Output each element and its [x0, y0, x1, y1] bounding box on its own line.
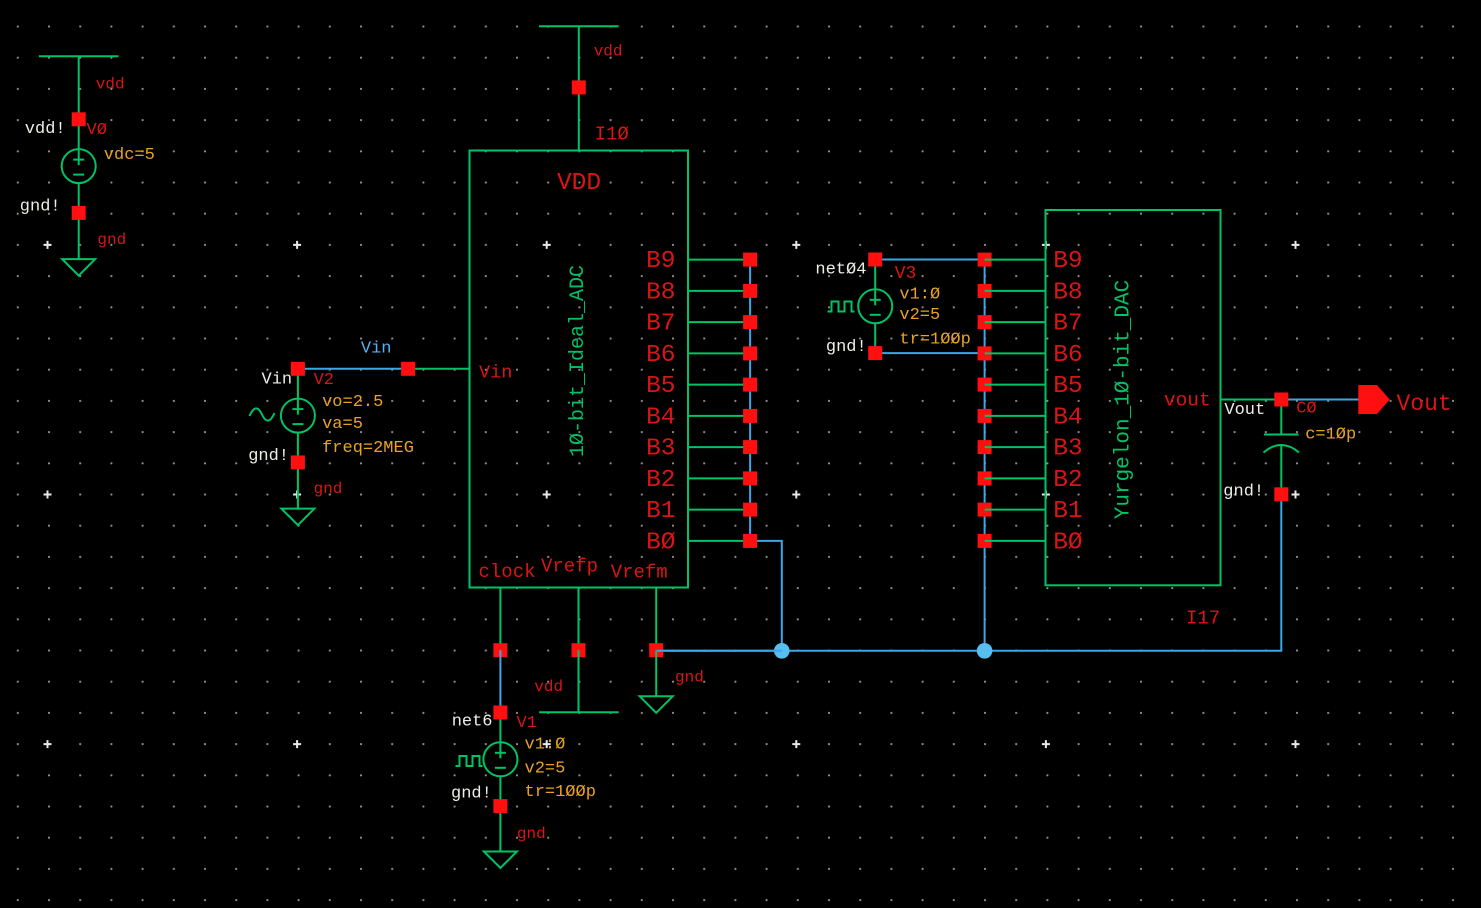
op block U I10 10-bit_Ideal_ADC box: [470, 151, 689, 588]
sine glyph of V2: [250, 408, 275, 420]
pin label Vin: [479, 363, 512, 384]
svg-text:VDD: VDD: [557, 170, 601, 197]
instance label V0: [87, 121, 107, 140]
svg-text:B2: B2: [646, 467, 675, 494]
DAC B7 pin stub: [985, 321, 1046, 323]
value label vdc=5: [104, 146, 155, 165]
svg-text:V1: V1: [517, 714, 537, 733]
pulse glyph of V1: [456, 756, 483, 766]
wire V1 to ground: [499, 806, 501, 851]
pin square DAC B4: [978, 409, 992, 423]
svg-text:freq=2MEG: freq=2MEG: [322, 439, 414, 458]
svg-text:vdd: vdd: [96, 76, 125, 94]
svg-text:B1: B1: [1053, 498, 1082, 525]
svg-text:tr=1ØØp: tr=1ØØp: [899, 331, 970, 350]
ADC pin label B9: [646, 248, 675, 275]
svg-text:Vin: Vin: [361, 340, 392, 359]
ground symbol (V1): [484, 852, 517, 869]
svg-text:B8: B8: [646, 279, 675, 306]
DAC B3 pin stub: [985, 446, 1046, 448]
vdd symbol (V0 top rail): [39, 55, 119, 57]
DAC pin label B5: [1053, 373, 1082, 400]
ADC B8 pin stub: [688, 290, 750, 292]
svg-text:vdd: vdd: [534, 678, 563, 696]
value freq=2MEG: [322, 439, 414, 458]
DAC B5 pin stub: [985, 384, 1046, 386]
pin square clock: [493, 643, 507, 657]
svg-text:tr=1ØØp: tr=1ØØp: [525, 783, 596, 802]
svg-text:V2: V2: [314, 371, 334, 390]
ADC B6 pin stub: [688, 352, 750, 354]
svg-text:Vrefm: Vrefm: [611, 562, 668, 584]
value c=10p: [1305, 426, 1356, 445]
pin square ADC B3: [743, 440, 757, 454]
svg-text:vout: vout: [1164, 389, 1211, 411]
DAC pin label B9: [1053, 248, 1082, 275]
pin square gnd! of V2: [291, 455, 305, 469]
pin square VDD of I10: [572, 80, 586, 94]
wire vdd bar to ADC VDD pin: [578, 26, 580, 150]
svg-text:gnd!: gnd!: [451, 785, 492, 804]
pin square gnd! of V0: [72, 206, 86, 220]
svg-text:B1: B1: [646, 498, 675, 525]
ADC B0 pin stub: [688, 540, 750, 542]
label gnd! (V3): [826, 338, 867, 357]
wire left bus column: [749, 260, 751, 541]
svg-text:B8: B8: [1053, 279, 1082, 306]
DAC pin label B7: [1053, 311, 1082, 338]
vdd symbol (Vrefp): [539, 711, 619, 713]
instance label I10: [595, 124, 629, 146]
pin square ADC B4: [743, 409, 757, 423]
net label vdd (I10): [594, 43, 623, 61]
svg-text:gnd!: gnd!: [826, 338, 867, 357]
pin square ADC B2: [743, 471, 757, 485]
svg-text:gnd: gnd: [97, 231, 126, 249]
net label vdd (Vrefp): [534, 678, 563, 696]
ground symbol (V0): [62, 259, 95, 276]
svg-text:I1Ø: I1Ø: [595, 124, 629, 146]
pin square net04 of V3: [868, 253, 882, 267]
label net04: [815, 261, 866, 280]
ADC B7 pin stub: [688, 321, 750, 323]
ADC Vin pin stub: [408, 368, 469, 370]
svg-text:va=5: va=5: [322, 415, 363, 434]
ADC pin label B7: [646, 311, 675, 338]
DAC B9 pin stub: [985, 259, 1046, 261]
pin label vout: [1164, 389, 1211, 411]
ADC clock pin stub: [499, 588, 501, 651]
svg-text:CØ: CØ: [1296, 400, 1316, 419]
label vdd!: [25, 120, 66, 139]
svg-text:gnd: gnd: [314, 480, 343, 498]
junction dot left: [774, 643, 790, 659]
svg-text:gnd!: gnd!: [20, 198, 61, 217]
pin square vdd! of V0: [72, 112, 86, 126]
DAC pin label B2: [1053, 467, 1082, 494]
ADC B5 pin stub: [688, 384, 750, 386]
svg-text:v1:Ø: v1:Ø: [899, 286, 940, 305]
pin square DAC B9: [978, 253, 992, 267]
svg-text:vdc=5: vdc=5: [104, 146, 155, 165]
svg-text:BØ: BØ: [646, 529, 675, 556]
net label Vin (blue): [361, 340, 392, 359]
DAC B1 pin stub: [985, 509, 1046, 511]
ADC pin label B5: [646, 373, 675, 400]
wire Vrefm to bus (blue): [656, 650, 782, 652]
ADC Vrefp pin stub: [578, 588, 580, 651]
svg-text:B6: B6: [1053, 342, 1082, 369]
svg-text:gnd: gnd: [517, 825, 546, 843]
pin square ADC B9: [743, 253, 757, 267]
ADC pin label B3: [646, 436, 675, 463]
wire clock to net6 (blue): [499, 650, 501, 712]
label gnd! (V2): [248, 447, 289, 466]
value v1:0 (V3): [899, 286, 940, 305]
pin square DAC B8: [978, 284, 992, 298]
svg-text:vdd!: vdd!: [25, 120, 66, 139]
pin square ADC B7: [743, 315, 757, 329]
ADC B2 pin stub: [688, 477, 750, 479]
pin square vout/C0 top: [1274, 393, 1288, 407]
pin square gnd! of C0: [1274, 487, 1288, 501]
output pin arrow Vout: [1358, 385, 1389, 414]
svg-text:vo=2.5: vo=2.5: [322, 393, 383, 412]
svg-text:VØ: VØ: [87, 121, 107, 140]
ADC B3 pin stub: [688, 446, 750, 448]
label gnd! (V1): [451, 785, 492, 804]
svg-text:clock: clock: [479, 561, 536, 583]
pin label Vrefm: [611, 562, 668, 584]
svg-text:V3: V3: [895, 264, 917, 284]
svg-text:1Ø-bit_Ideal_ADC: 1Ø-bit_Ideal_ADC: [567, 265, 590, 457]
value va=5: [322, 415, 363, 434]
value vo=2.5: [322, 393, 383, 412]
svg-text:v2=5: v2=5: [899, 306, 940, 325]
pin square gnd! of V1: [493, 799, 507, 813]
pin square ADC B8: [743, 284, 757, 298]
pin label Vrefp: [541, 556, 598, 578]
wire Vrefm to ground: [655, 650, 657, 696]
svg-text:B7: B7: [646, 311, 675, 338]
ADC pin label B0: [646, 529, 675, 556]
net label gnd (Vrefm): [675, 669, 704, 687]
svg-text:v1:Ø: v1:Ø: [525, 736, 566, 755]
instance label V3: [895, 264, 917, 284]
svg-text:B5: B5: [646, 373, 675, 400]
instance label I17: [1186, 608, 1220, 630]
wire V3 gnd to column: [875, 352, 984, 354]
wire V0 to ground: [78, 213, 80, 259]
svg-text:Vout: Vout: [1397, 391, 1452, 417]
wire Vrefp to vdd bar: [578, 650, 580, 712]
DAC B8 pin stub: [985, 290, 1046, 292]
ADC pin label B1: [646, 498, 675, 525]
junction dot right: [977, 643, 993, 659]
wire net04 to DAC B9: [875, 259, 984, 261]
DAC pin label B6: [1053, 342, 1082, 369]
ground symbol (V2): [281, 509, 314, 525]
DAC B4 pin stub: [985, 415, 1046, 417]
svg-text:Vin: Vin: [262, 371, 293, 390]
svg-text:B4: B4: [646, 404, 675, 431]
voltage source V1 pulse: [483, 713, 517, 807]
value tr=100p (V3): [899, 331, 970, 350]
svg-text:gnd!: gnd!: [1223, 483, 1264, 502]
value tr=100p (V1): [525, 783, 596, 802]
svg-text:gnd: gnd: [675, 669, 704, 687]
pin square ADC B0: [743, 534, 757, 548]
ADC B1 pin stub: [688, 509, 750, 511]
svg-text:Vrefp: Vrefp: [541, 556, 598, 578]
DAC pin label B3: [1053, 436, 1082, 463]
wire vout to pin arrow: [1281, 399, 1358, 401]
svg-text:B5: B5: [1053, 373, 1082, 400]
svg-text:netØ4: netØ4: [815, 261, 866, 280]
pin square DAC B7: [978, 315, 992, 329]
pin square ADC B1: [743, 503, 757, 517]
ground symbol (Vrefm): [640, 696, 673, 713]
svg-text:B2: B2: [1053, 467, 1082, 494]
value v1:0 (V1): [525, 736, 566, 755]
wire C0 gnd to bus: [656, 494, 1281, 651]
net label vdd: [96, 76, 125, 94]
svg-text:Vin: Vin: [479, 363, 512, 384]
svg-text:gnd!: gnd!: [248, 447, 289, 466]
pin square ADC B5: [743, 378, 757, 392]
voltage source V3 pulse: [858, 260, 892, 354]
pin square DAC B0: [978, 534, 992, 548]
pin square Vrefp: [572, 643, 586, 657]
DAC pin label B8: [1053, 279, 1082, 306]
label gnd! (C0): [1223, 483, 1264, 502]
pin square DAC B5: [978, 378, 992, 392]
ADC pin label B8: [646, 279, 675, 306]
voltage source V2 sine: [281, 369, 315, 463]
block I17 Yurgelon_10-bit_DAC box: [1046, 210, 1221, 585]
voltage source V0 vdc=5: [62, 119, 96, 213]
svg-text:B3: B3: [646, 436, 675, 463]
instance label V2: [314, 371, 334, 390]
svg-text:vdd: vdd: [594, 43, 623, 61]
svg-text:I17: I17: [1186, 608, 1220, 630]
pulse glyph of V3: [828, 302, 855, 312]
svg-text:B3: B3: [1053, 436, 1082, 463]
svg-text:net6: net6: [452, 713, 493, 732]
pin square Vin of V2: [291, 362, 305, 376]
ADC B9 pin stub: [688, 259, 750, 261]
ADC Vrefm pin stub: [655, 588, 657, 651]
wire V2 to ground: [297, 462, 299, 508]
svg-text:B9: B9: [646, 248, 675, 275]
svg-text:c=1Øp: c=1Øp: [1305, 426, 1356, 445]
pin square ADC B6: [743, 346, 757, 360]
svg-text:B9: B9: [1053, 248, 1082, 275]
svg-text:B6: B6: [646, 342, 675, 369]
value v2=5 (V1): [525, 760, 566, 779]
value v2=5 (V3): [899, 306, 940, 325]
svg-text:B4: B4: [1053, 404, 1082, 431]
DAC vout pin stub: [1221, 399, 1282, 401]
ADC pin label B4: [646, 404, 675, 431]
vdd symbol (I10 VDD rail): [539, 25, 619, 27]
net label Vout (big red): [1397, 391, 1452, 417]
label net6: [452, 713, 493, 732]
pin square DAC B6: [978, 346, 992, 360]
svg-text:Yurgelon_1Ø-bit_DAC: Yurgelon_1Ø-bit_DAC: [1113, 280, 1136, 519]
pin label VDD: [557, 170, 601, 197]
net label gnd: [97, 231, 126, 249]
capacitor C0: [1264, 400, 1300, 495]
pin square Vrefm: [649, 643, 663, 657]
svg-text:v2=5: v2=5: [525, 760, 566, 779]
wire B0 jog to bus: [750, 541, 782, 651]
net label gnd (V2): [314, 480, 343, 498]
svg-text:Vout: Vout: [1224, 401, 1265, 420]
ADC pin label B6: [646, 342, 675, 369]
pin label clock: [479, 561, 536, 583]
svg-text:BØ: BØ: [1053, 529, 1082, 556]
DAC pin label B1: [1053, 498, 1082, 525]
instance label V1: [517, 714, 537, 733]
wire right bus column: [984, 260, 986, 651]
DAC B0 pin stub: [985, 540, 1046, 542]
net label gnd (V1): [517, 825, 546, 843]
svg-text:B7: B7: [1053, 311, 1082, 338]
wire vdd bar to V0: [78, 56, 80, 119]
label Vout (white): [1224, 401, 1265, 420]
DAC pin label B4: [1053, 404, 1082, 431]
DAC pin label B0: [1053, 529, 1082, 556]
instance label C0: [1296, 400, 1316, 419]
ADC pin label B2: [646, 467, 675, 494]
pin square DAC B2: [978, 471, 992, 485]
ADC B4 pin stub: [688, 415, 750, 417]
DAC B2 pin stub: [985, 477, 1046, 479]
pin square at ADC Vin: [401, 362, 415, 376]
pin square DAC B1: [978, 503, 992, 517]
pin square net6 of V1: [493, 706, 507, 720]
label gnd!: [20, 198, 61, 217]
wire net Vin: [298, 368, 408, 370]
label Vin (white): [262, 371, 293, 390]
pin square DAC B3: [978, 440, 992, 454]
pin square gnd! of V3: [868, 346, 882, 360]
DAC B6 pin stub: [985, 352, 1046, 354]
